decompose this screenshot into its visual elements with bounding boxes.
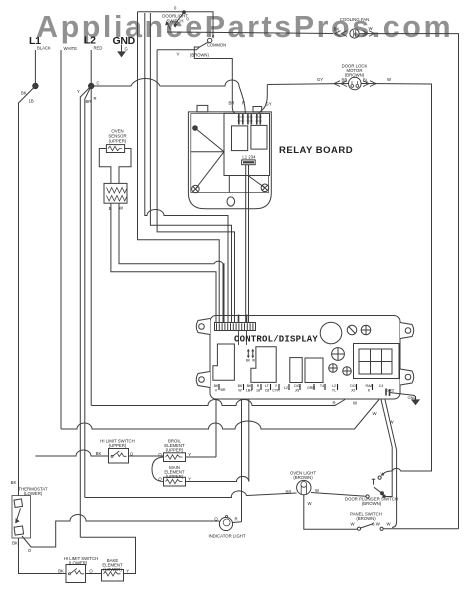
svg-text:L1 234: L1 234 (242, 155, 256, 160)
svg-text:Y: Y (77, 89, 80, 94)
svg-text:BK: BK (238, 384, 243, 388)
svg-text:W: W (238, 389, 242, 393)
svg-text:(BROWN): (BROWN) (293, 475, 313, 480)
svg-text:L2: L2 (332, 384, 336, 388)
svg-text:BK: BK (11, 480, 17, 485)
svg-text:R: R (242, 101, 245, 106)
svg-text:SWITCH: SWITCH (167, 19, 184, 24)
svg-text:C8: C8 (265, 389, 270, 393)
svg-text:(UPPER): (UPPER) (109, 443, 127, 448)
svg-text:INDICATOR LIGHT: INDICATOR LIGHT (208, 534, 245, 539)
svg-text:G: G (125, 47, 128, 52)
svg-text:BK: BK (96, 451, 102, 456)
svg-text:R: R (332, 401, 335, 406)
svg-text:(BROWN): (BROWN) (190, 53, 209, 58)
svg-text:DG: DG (294, 384, 300, 388)
svg-text:BK: BK (12, 541, 18, 546)
svg-text:AppliancePartsPros.com: AppliancePartsPros.com (36, 10, 453, 44)
svg-text:COOLING FAN: COOLING FAN (340, 17, 369, 22)
svg-text:BLACK: BLACK (37, 46, 51, 51)
svg-text:BR: BR (342, 78, 348, 83)
svg-text:W: W (252, 359, 255, 363)
svg-text:Y: Y (188, 477, 191, 482)
svg-text:BK: BK (214, 384, 219, 388)
svg-text:DO: DO (350, 384, 356, 388)
svg-text:GY: GY (317, 77, 323, 82)
svg-text:(BROWN): (BROWN) (345, 73, 365, 78)
svg-text:BK: BK (334, 27, 340, 32)
svg-text:JO: JO (351, 389, 356, 393)
svg-text:COMMON: COMMON (207, 43, 226, 48)
svg-text:BR: BR (229, 101, 235, 106)
svg-text:18: 18 (256, 389, 260, 393)
svg-text:BK: BK (21, 91, 27, 96)
svg-text:BK: BK (247, 384, 252, 388)
svg-text:T4: T4 (320, 384, 324, 388)
svg-text:WHITE: WHITE (64, 46, 78, 51)
svg-text:6 W: 6 W (372, 522, 381, 527)
svg-text:RA8: RA8 (366, 384, 373, 388)
svg-text:C: C (97, 81, 100, 86)
svg-text:(UPPER): (UPPER) (166, 474, 184, 479)
svg-text:R: R (234, 517, 237, 522)
svg-text:BR: BR (221, 388, 226, 392)
svg-text:RED: RED (94, 46, 103, 51)
svg-text:BR: BR (86, 99, 92, 104)
svg-text:(BROWN): (BROWN) (356, 516, 376, 521)
svg-text:Y: Y (126, 569, 129, 574)
svg-text:CONTROL/DISPLAY: CONTROL/DISPLAY (234, 335, 318, 345)
svg-text:1B: 1B (29, 99, 34, 104)
svg-text:R: R (257, 384, 260, 388)
svg-text:1B4: 1B4 (246, 389, 252, 393)
svg-text:BL: BL (363, 78, 369, 83)
svg-text:(LOWER): (LOWER) (69, 561, 88, 566)
svg-text:BK: BK (58, 569, 64, 574)
svg-text:GY: GY (265, 102, 271, 107)
svg-text:GND: GND (113, 35, 136, 47)
svg-text:L2: L2 (284, 386, 288, 390)
svg-text:JG: JG (295, 389, 300, 393)
svg-text:B: B (109, 206, 112, 211)
svg-text:C4: C4 (379, 384, 384, 388)
svg-text:Y: Y (188, 452, 191, 457)
svg-text:RELAY BOARD: RELAY BOARD (279, 145, 353, 156)
svg-text:(BROWN): (BROWN) (362, 501, 382, 506)
svg-text:GRD: GRD (386, 389, 395, 393)
svg-text:(LOWER): (LOWER) (103, 567, 122, 572)
svg-text:(UPPER): (UPPER) (109, 139, 127, 144)
svg-text:GND: GND (408, 395, 417, 400)
svg-text:(UPPER): (UPPER) (166, 448, 184, 453)
svg-text:(LOWER): (LOWER) (24, 491, 43, 496)
svg-text:V: V (177, 52, 180, 57)
svg-text:R: R (94, 96, 97, 101)
svg-text:BR: BR (286, 490, 292, 495)
svg-text:YL: YL (332, 389, 336, 393)
